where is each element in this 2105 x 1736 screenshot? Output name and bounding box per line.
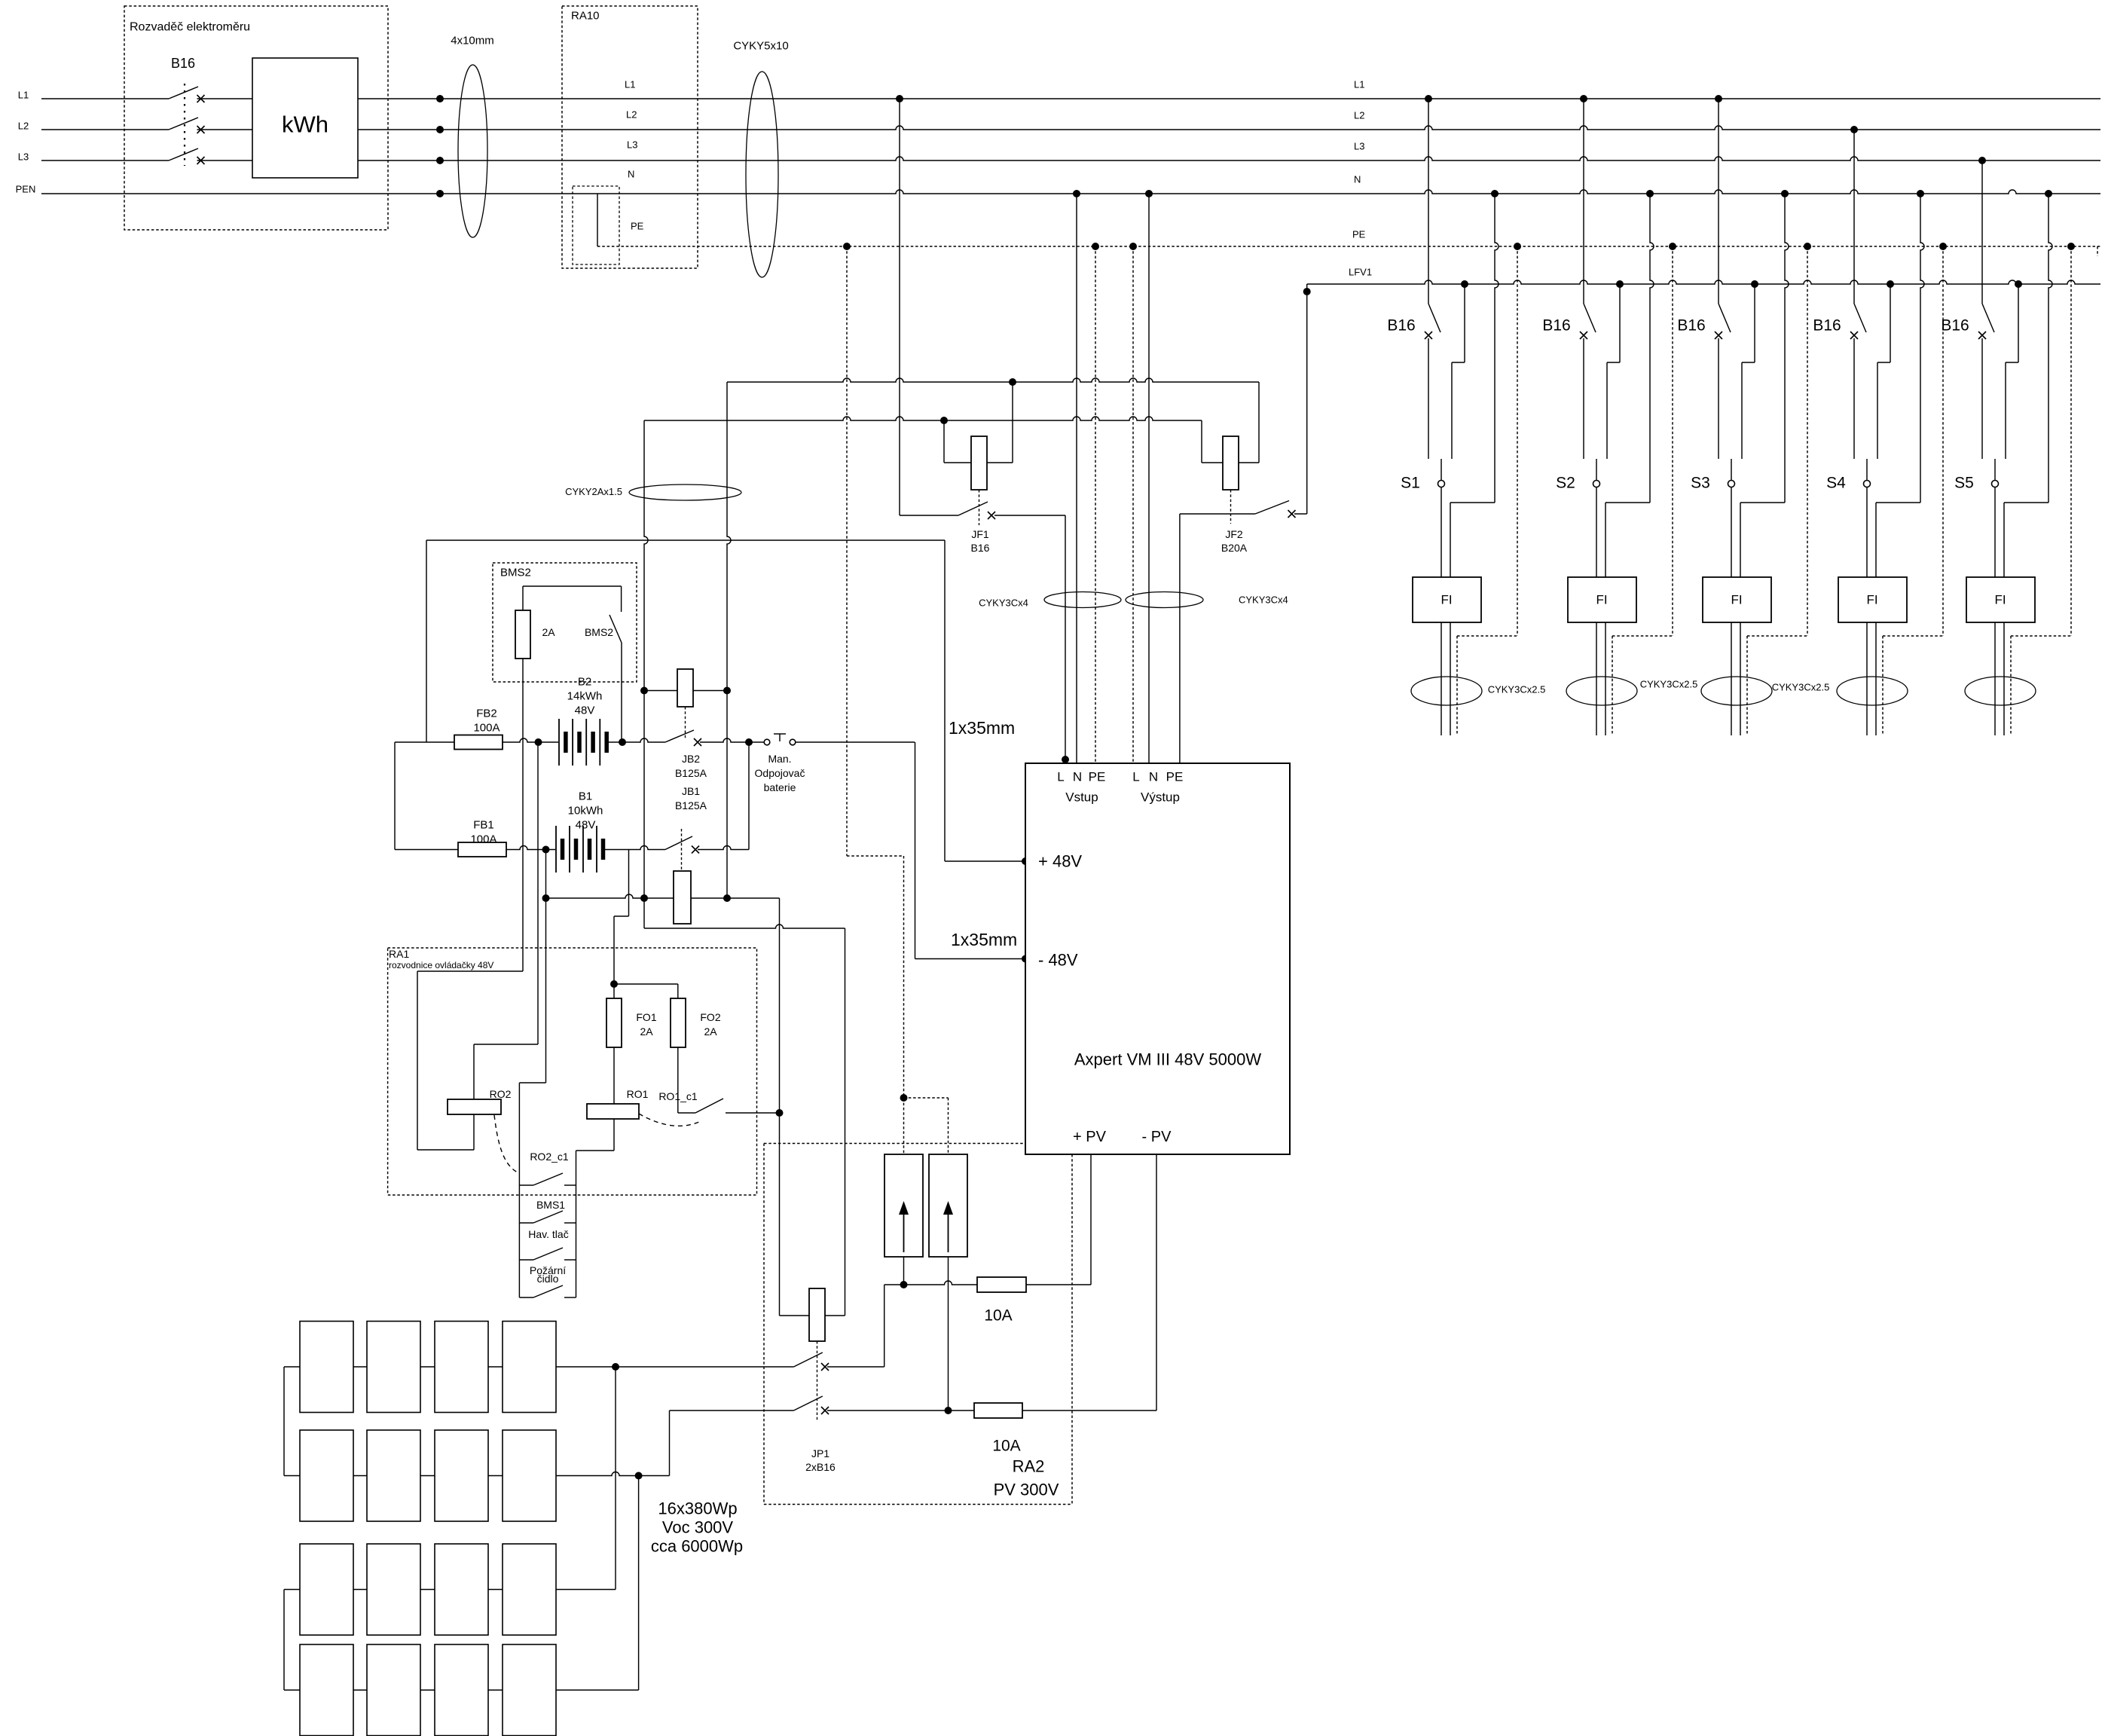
wire PE vystup — [1129, 243, 1137, 250]
svg-text:CYKY3Cx4: CYKY3Cx4 — [1239, 594, 1288, 606]
svg-text:Axpert VM III 48V 5000W: Axpert VM III 48V 5000W — [1074, 1050, 1261, 1069]
bus PE — [597, 246, 2100, 247]
svg-text:B1: B1 — [579, 790, 592, 803]
svg-text:B16: B16 — [971, 542, 990, 554]
SPD right — [929, 1154, 967, 1257]
RCD FI 2 — [1568, 577, 1636, 622]
svg-text:10A: 10A — [984, 1307, 1012, 1325]
wire SPD right down — [948, 1257, 949, 1410]
PV string bracket A — [283, 1367, 285, 1476]
RCD FI 4 — [1838, 577, 1907, 622]
cable CYKY3Cx2.5 1 — [1411, 677, 1482, 705]
wire PV row3 — [556, 1589, 616, 1591]
svg-text:2A: 2A — [640, 1025, 653, 1038]
PV string bracket B — [283, 1590, 285, 1691]
svg-text:L3: L3 — [627, 139, 637, 151]
wire RO2 loop — [473, 1114, 475, 1150]
svg-text:kWh: kWh — [282, 112, 328, 138]
wire FO2 feed — [614, 983, 678, 985]
svg-text:FO2: FO2 — [700, 1011, 720, 1023]
svg-text:BMS1: BMS1 — [536, 1199, 565, 1211]
svg-text:1x35mm: 1x35mm — [949, 718, 1015, 738]
fuse FO1 2A — [606, 998, 622, 1047]
svg-text:CYKY3Cx2.5: CYKY3Cx2.5 — [1772, 682, 1830, 693]
wire B1 plus step — [628, 850, 630, 917]
svg-text:FI: FI — [1596, 593, 1607, 607]
wire N vystup — [1145, 190, 1153, 197]
branch 5 N tap — [2045, 190, 2052, 197]
svg-text:Man.: Man. — [768, 753, 791, 765]
svg-text:L1: L1 — [18, 90, 29, 101]
branch 4 N tap — [1917, 190, 1924, 197]
branch 1 PE tap — [1514, 243, 1521, 250]
svg-text:100A: 100A — [470, 833, 496, 846]
box RA1 rozvodnice ovladacky 48V — [388, 948, 757, 1195]
wire L vstup — [1065, 515, 1066, 763]
branch 3 LFV1 tap — [1751, 280, 1758, 288]
wire coil rail to JP1 left — [779, 898, 781, 1316]
svg-text:- 48V: - 48V — [1038, 951, 1078, 970]
svg-text:2xB16: 2xB16 — [805, 1461, 836, 1473]
branch 2 PE tap — [1669, 243, 1676, 250]
svg-text:B16: B16 — [1813, 317, 1841, 335]
svg-text:RO1: RO1 — [627, 1088, 649, 1100]
svg-text:RA2: RA2 — [1013, 1457, 1045, 1476]
wire B1 row — [506, 846, 555, 850]
wire L vystup — [1179, 514, 1181, 763]
svg-text:PE: PE — [1166, 770, 1184, 784]
bus LFV1 — [1307, 280, 2100, 284]
wire PV row2 — [556, 1472, 670, 1476]
svg-text:BMS2: BMS2 — [500, 567, 531, 579]
switch Man. Odpojovac baterie — [764, 739, 770, 745]
svg-text:PV 300V: PV 300V — [994, 1481, 1059, 1499]
cable CYKY3Cx2.5 3 — [1701, 677, 1772, 705]
branch 4 LFV1 tap — [1887, 280, 1894, 288]
svg-text:CYKY3Cx2.5: CYKY3Cx2.5 — [1488, 684, 1546, 695]
svg-text:B16: B16 — [1677, 317, 1705, 335]
svg-text:S4: S4 — [1826, 475, 1846, 492]
svg-text:Odpojovač: Odpojovač — [755, 767, 805, 779]
svg-text:FI: FI — [1441, 593, 1452, 607]
svg-text:B2: B2 — [578, 676, 591, 689]
wire battery plus to inverter — [795, 741, 915, 743]
junction dots 4x10mm — [436, 95, 444, 102]
fuse 10A plus — [977, 1277, 1026, 1292]
svg-text:2A: 2A — [542, 626, 555, 638]
link RO2 to contact — [494, 1115, 518, 1172]
svg-text:+ PV: + PV — [1073, 1129, 1107, 1145]
svg-text:Rozvaděč elektroměru: Rozvaděč elektroměru — [130, 21, 250, 34]
svg-text:L: L — [1057, 770, 1064, 784]
RCD FI 5 — [1966, 577, 2035, 622]
inverter Axpert VM III 48V 5000W — [1025, 763, 1290, 1154]
svg-text:PEN: PEN — [16, 184, 36, 195]
RCD FI 1 — [1413, 577, 1481, 622]
svg-text:rozvodnice ovládačky 48V: rozvodnice ovládačky 48V — [389, 960, 493, 970]
svg-text:PE: PE — [1089, 770, 1106, 784]
branch 3 PE tap — [1804, 243, 1811, 250]
box RA2 PV 300V — [763, 1144, 765, 1505]
svg-text:L3: L3 — [1354, 141, 1364, 152]
JP1 pole 1 — [794, 1352, 823, 1367]
svg-text:PE: PE — [1352, 229, 1366, 240]
svg-text:L1: L1 — [1354, 79, 1364, 90]
branch 4 PE tap — [1939, 243, 1947, 250]
svg-text:JF1: JF1 — [971, 528, 989, 540]
wire control rail B — [727, 382, 731, 898]
JP1 pole 2 — [794, 1396, 823, 1410]
wire control rail A — [644, 420, 648, 928]
wire rail y558 — [644, 417, 1202, 420]
svg-text:16x380Wp: 16x380Wp — [658, 1499, 737, 1518]
kWh meter — [252, 58, 358, 178]
breaker JB2 B125A — [677, 669, 693, 707]
svg-text:L: L — [1132, 770, 1139, 784]
wire chain feed — [545, 850, 547, 1083]
svg-text:2A: 2A — [704, 1025, 717, 1038]
svg-text:100A: 100A — [473, 722, 500, 735]
svg-text:N: N — [628, 169, 634, 180]
fuse 2A BMS2 — [522, 586, 524, 610]
wire JB2 to Man switch — [700, 738, 764, 742]
PV array 16x380Wp — [300, 1322, 353, 1413]
svg-text:S5: S5 — [1954, 475, 1974, 492]
svg-text:JB2: JB2 — [682, 753, 700, 765]
box RA10 — [562, 6, 698, 268]
wire JB1 coil leads — [546, 894, 674, 898]
box BMS2 — [493, 563, 637, 682]
svg-text:PE: PE — [631, 221, 644, 232]
wire PV row1 to JP1 — [556, 1366, 794, 1368]
branch 1 breaker B16 — [1425, 95, 1432, 102]
PEN-PE bridge box — [573, 186, 619, 264]
wire B1 to JB1 — [605, 846, 665, 850]
wire B2 to JB2 — [608, 738, 665, 742]
svg-text:10A: 10A — [992, 1438, 1020, 1455]
svg-text:B16: B16 — [1387, 317, 1415, 335]
svg-text:L2: L2 — [1354, 110, 1364, 121]
svg-text:RO2_c1: RO2_c1 — [530, 1151, 569, 1163]
svg-text:1x35mm: 1x35mm — [951, 930, 1017, 949]
svg-text:B16: B16 — [1941, 317, 1969, 335]
fuse FO2 2A — [671, 998, 686, 1047]
wire RO2 feed — [537, 742, 539, 1044]
breaker linkage — [184, 84, 185, 166]
wire coil rail to JP1 right — [644, 925, 845, 928]
svg-text:48V: 48V — [575, 704, 595, 717]
svg-text:S1: S1 — [1401, 475, 1420, 492]
branch 4 breaker B16 — [1850, 126, 1858, 133]
wire L1 drop to JF1 — [896, 95, 903, 102]
svg-text:S3: S3 — [1691, 475, 1710, 492]
svg-text:čidlo: čidlo — [537, 1273, 559, 1285]
svg-text:FB1: FB1 — [473, 819, 494, 832]
svg-text:48V: 48V — [576, 819, 596, 832]
wire RO1 to chain — [613, 1119, 615, 1151]
svg-text:FO1: FO1 — [636, 1011, 656, 1023]
svg-text:N: N — [1073, 770, 1082, 784]
svg-text:FI: FI — [1866, 593, 1877, 607]
branch 3 N tap — [1781, 190, 1789, 197]
wire PE to SPD — [846, 246, 848, 856]
svg-text:FI: FI — [1994, 593, 2006, 607]
branch 5 breaker B16 — [1978, 157, 1986, 164]
svg-text:LFV1: LFV1 — [1349, 267, 1372, 278]
svg-text:B16: B16 — [171, 56, 195, 71]
branch 5 PE tap — [2067, 243, 2075, 250]
svg-text:RA10: RA10 — [571, 10, 600, 23]
svg-text:L2: L2 — [626, 109, 637, 121]
wire N vstup — [1073, 190, 1080, 197]
cable CYKY3Cx2.5 5 — [1965, 677, 2036, 705]
svg-text:CYKY5x10: CYKY5x10 — [733, 40, 788, 53]
svg-text:- PV: - PV — [1142, 1129, 1172, 1145]
RCD FI 3 — [1703, 577, 1771, 622]
svg-text:L3: L3 — [18, 151, 29, 163]
svg-text:Voc 300V: Voc 300V — [662, 1518, 734, 1537]
wire JF2 to LFV1 — [1306, 284, 1308, 514]
bus N (PEN) — [41, 190, 2100, 194]
breaker JF1 B16 — [940, 417, 948, 424]
bus L2 — [41, 129, 169, 130]
svg-text:L2: L2 — [18, 121, 29, 132]
cable CYKY3Cx2.5 2 — [1566, 677, 1637, 705]
wire PV row4 — [556, 1689, 639, 1691]
switch chain left wire — [518, 1083, 520, 1297]
svg-text:4x10mm: 4x10mm — [451, 35, 494, 47]
bus L3 — [41, 160, 169, 161]
svg-text:JP1: JP1 — [811, 1447, 829, 1459]
wire plus48 rail — [426, 540, 427, 742]
svg-text:RA1: RA1 — [389, 948, 409, 960]
svg-text:JB1: JB1 — [682, 785, 700, 797]
svg-text:B125A: B125A — [675, 767, 707, 779]
bus L1 — [41, 98, 169, 99]
SPD left — [884, 1154, 923, 1257]
svg-text:14kWh: 14kWh — [567, 690, 603, 703]
branch 2 LFV1 tap — [1616, 280, 1624, 288]
branch 2 N tap — [1646, 190, 1654, 197]
wire B2 row — [503, 738, 558, 742]
svg-text:FI: FI — [1731, 593, 1742, 607]
svg-text:N: N — [1149, 770, 1158, 784]
svg-text:Hav. tlač: Hav. tlač — [528, 1228, 568, 1240]
PEN-PE bridge wire — [597, 194, 598, 246]
svg-text:Výstup: Výstup — [1141, 790, 1180, 805]
branch 5 LFV1 tap — [2015, 280, 2022, 288]
link RO1 to contact RO1_c1 — [639, 1114, 701, 1126]
switch BMS2 — [523, 585, 622, 587]
svg-text:B16: B16 — [1542, 317, 1570, 335]
svg-text:JF2: JF2 — [1225, 528, 1243, 540]
svg-text:baterie: baterie — [764, 781, 796, 793]
svg-text:Vstup: Vstup — [1065, 790, 1098, 805]
svg-text:FB2: FB2 — [476, 708, 497, 720]
svg-text:S2: S2 — [1556, 475, 1575, 492]
svg-text:RO2: RO2 — [490, 1088, 512, 1100]
svg-text:cca 6000Wp: cca 6000Wp — [651, 1537, 743, 1556]
wire SPD left down — [903, 1257, 905, 1285]
branch 1 LFV1 tap — [1461, 280, 1468, 288]
svg-text:B20A: B20A — [1221, 542, 1248, 554]
box Rozvadec elektromeru — [124, 6, 388, 230]
branch 3 breaker B16 — [1715, 95, 1722, 102]
wire PE vstup — [1092, 243, 1099, 250]
svg-text:L1: L1 — [625, 79, 635, 90]
svg-text:CYKY2Ax1.5: CYKY2Ax1.5 — [565, 486, 622, 497]
cable CYKY3Cx4 vystup — [1126, 592, 1203, 608]
svg-text:10kWh: 10kWh — [568, 805, 603, 818]
cable CYKY3Cx2.5 4 — [1837, 677, 1908, 705]
wire plus PV — [884, 1285, 885, 1367]
breaker JP1 2xB16 — [780, 1315, 810, 1316]
fuse 10A minus — [974, 1403, 1022, 1418]
breaker JF2 B20A — [1201, 420, 1202, 463]
svg-text:B125A: B125A — [675, 799, 707, 811]
wire rail y507 — [727, 378, 1259, 382]
svg-text:+ 48V: + 48V — [1038, 852, 1082, 871]
svg-text:CYKY3Cx2.5: CYKY3Cx2.5 — [1640, 679, 1698, 690]
branch 2 breaker B16 — [1580, 95, 1587, 102]
svg-text:N: N — [1354, 174, 1361, 185]
svg-text:CYKY3Cx4: CYKY3Cx4 — [979, 598, 1028, 609]
svg-text:BMS2: BMS2 — [585, 626, 613, 638]
branch 1 N tap — [1491, 190, 1499, 197]
